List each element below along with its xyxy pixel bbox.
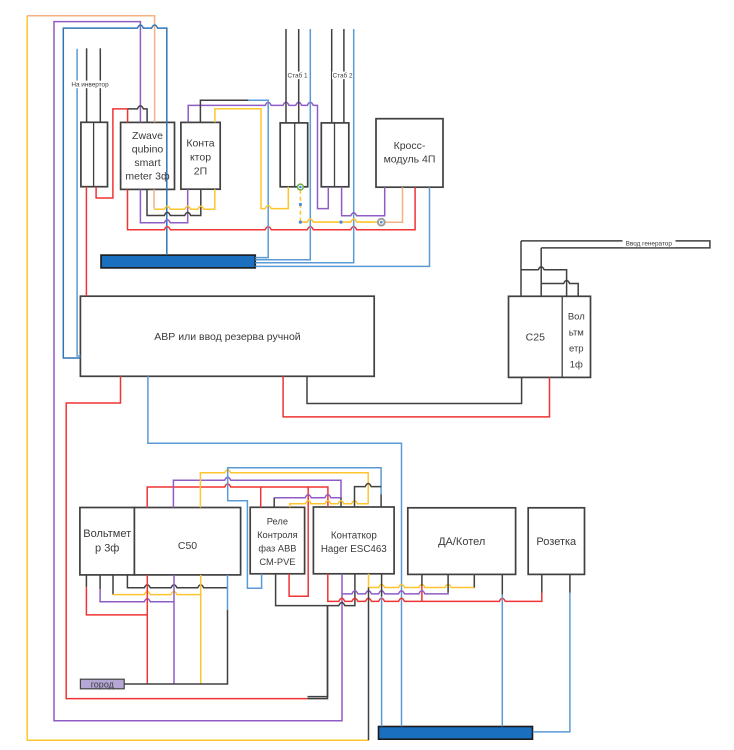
busbar lower (blue distribution bar) (379, 727, 533, 740)
wire blue: Stab1 aux down to busbar (255, 29, 310, 260)
wire red: voltmeter3f to C50 red riser (86, 587, 147, 615)
wire red: AVR bottom left long run to bottom (66, 376, 307, 698)
voltmeter Voltmetr 3f (80, 508, 134, 575)
svg-text:meter 3ф: meter 3ф (125, 171, 170, 183)
load DA/Kotel (408, 508, 516, 575)
wire purple: Kontaktor 2P top to Stab2 bottom (188, 102, 328, 208)
breaker C25 with voltmeter 1f (509, 296, 591, 377)
breaker Stab 2 (2-pole) (321, 123, 349, 187)
connector waypoint dots (blue) (299, 203, 302, 206)
svg-text:qubino: qubino (132, 144, 164, 156)
busbar upper (blue distribution bar) (101, 255, 255, 268)
wire purple: Stab2 bottom to Kross module bottom (342, 187, 385, 216)
wire black: generator drop A to C25 top (520, 241, 522, 296)
svg-text:Ввод генератор: Ввод генератор (626, 240, 673, 247)
svg-text:Hager ESC463: Hager ESC463 (321, 544, 387, 555)
breaker C50 (134, 508, 240, 575)
svg-text:Вол: Вол (568, 312, 585, 323)
wire black stub Rozetka 1 (541, 574, 543, 592)
svg-text:Кросс-: Кросс- (394, 140, 426, 152)
svg-text:р 3ф: р 3ф (95, 543, 119, 555)
svg-text:Конта: Конта (186, 138, 214, 150)
wire red: C50 top bus to Hager top (147, 484, 328, 508)
svg-text:ктор: ктор (190, 152, 211, 164)
wire red: AVR bottom to C25 bottom (283, 376, 549, 417)
wire black stub: Hager top purple junction (340, 498, 342, 507)
connector endpoint marker (green circle) at Stab1 bottom (298, 184, 304, 190)
wire black stub DA/Kotel 1 (421, 574, 423, 586)
wire purple: C50 top loop to Rele top and Hager top (173, 477, 341, 507)
wire black stub Stab1 pole 1 (285, 29, 287, 123)
wire red: Hager bottom to Rozetka bottom (328, 574, 542, 602)
svg-text:ьтм: ьтм (569, 328, 584, 339)
wire gold: connector run to Kross module (300, 219, 381, 222)
svg-text:CM-PVE: CM-PVE (259, 557, 295, 567)
svg-text:фаз АВВ: фаз АВВ (258, 544, 296, 554)
svg-text:етр: етр (569, 344, 584, 355)
wire red: Na invertor bottom loop up into Zwave top (96, 109, 128, 198)
wire black: generator input line (521, 241, 710, 248)
wire blue: Hager to lower busbar (381, 597, 383, 727)
wire black: voltmeter3f stub4 to blue riser (127, 575, 227, 588)
wire black: Kontaktor 2P top link (200, 100, 248, 122)
wire black: Zwave top link (128, 106, 147, 123)
svg-text:1ф: 1ф (570, 360, 583, 371)
wire red: branch to Rele top (260, 487, 262, 507)
contactor Hager ESC463 (313, 507, 394, 574)
wire black stub DA/Kotel 2 (447, 574, 449, 592)
wire black: bottom link to black riser (308, 606, 328, 699)
wire blue riser: C50 bottom (227, 575, 229, 610)
breaker Stab 1 (2-pole) (280, 123, 308, 187)
wire blue: continuation to busbar right end (248, 100, 268, 257)
wire blue: Stab2 aux down to busbar (255, 29, 354, 263)
wire blue: Rozetka to lower busbar right end (533, 593, 570, 732)
wire black stub DA/Kotel 4 (501, 574, 503, 594)
wire black stub to Na invertor pole 1 (86, 48, 88, 122)
cross-module Kross-modul 4P (376, 119, 443, 188)
wire purple: Hager bottom to DA/Kotel (342, 591, 448, 594)
wire red: Zwave bottom to Kross module bottom (128, 187, 416, 230)
wire purple riser: C50 bottom to gorod line (173, 575, 175, 684)
wire black: tie drop to bottom red run (308, 606, 328, 697)
wire light blue: short feed into AVR left edge (77, 49, 80, 356)
wire gold: to Kontaktor 2P bottom (154, 189, 215, 209)
meter Zwave qubino smart meter 3f (121, 122, 175, 189)
wire purple feed: Zwave top, left frame, bottom run, up to Hager bottom (54, 22, 342, 721)
wire black: generator drop B to C25 top (540, 248, 542, 296)
wire black stub Rozetka 2 (569, 574, 571, 592)
wire black: branch to voltmeter 1f top (521, 267, 567, 297)
wire black: riser continuation to gorod line (124, 610, 227, 684)
breaker Na invertor (2-pole) (81, 122, 108, 186)
wire black stub voltmeter3f 2 (99, 575, 101, 589)
label box gorod (80, 679, 124, 689)
wire gold: Hager bottom to DA/Kotel (369, 574, 475, 588)
wire blue: Kross module to busbar right end (255, 187, 429, 266)
wire black stub voltmeter3f 1 (85, 575, 87, 587)
wire black: Hager top tie (355, 484, 382, 508)
wire black stub voltmeter3f 3 (112, 575, 114, 595)
wire gold: voltmeter3f to C50 gold riser (113, 592, 201, 595)
wire gold: C50 top loop to Rele top (200, 470, 368, 508)
wire red riser: C50 bottom to gorod line (146, 575, 148, 684)
wire purple: Zwave bottom to Kontaktor 2P bottom (140, 189, 187, 223)
svg-text:ДА/Котел: ДА/Котел (438, 536, 485, 548)
svg-text:модуль 4П: модуль 4П (384, 154, 436, 166)
wire black stub: Hager top from blue (380, 494, 382, 507)
wire peach feed: top horizontal into Zwave meter top (27, 16, 154, 123)
wire black stub Stab2 pole 1 (331, 29, 333, 123)
wire black stub Stab1 pole 2 (298, 29, 300, 123)
wire black stub DA/Kotel 3 (473, 574, 475, 587)
wire red: Na invertor to AVR top (85, 187, 87, 297)
wire gold dashed: selected connector from Stab1 bottom (299, 190, 301, 222)
wire red: branch down to Rele bottom (289, 487, 308, 596)
wire dark blue frame: into AVR left, top horizontal, down through Zwave to busbar (63, 25, 167, 358)
wire purple: voltmeter3f to C50 purple riser (100, 589, 174, 602)
node label Stab 1 (287, 72, 308, 80)
wire red: DA/Kotel branch (421, 586, 423, 601)
svg-text:C50: C50 (178, 540, 197, 552)
wire gold: Kontaktor 2P top to Stab1 bottom (215, 109, 288, 209)
wire black: Zwave bottom to Kontaktor 2P bottom (147, 189, 201, 215)
svg-text:2П: 2П (194, 166, 207, 178)
svg-text:Стаб 2: Стаб 2 (332, 72, 352, 80)
wire gold riser: C50 bottom to gorod line (200, 575, 202, 684)
wire black stub to Na invertor pole 2 (99, 48, 101, 122)
wire peach: Zwave bottom stub (153, 189, 155, 208)
wire black stub: Rele top (273, 498, 275, 508)
wire black: junction riser down to gold bottom run (368, 588, 370, 741)
svg-text:Zwave: Zwave (132, 130, 163, 142)
node label Stab 2 (332, 72, 353, 80)
connector endpoint marker (gray circle) at Kross leg (378, 219, 385, 226)
svg-text:АВР или ввод резерва ручной: АВР или ввод резерва ручной (154, 331, 301, 343)
contactor Kontaktor 2P (181, 122, 220, 189)
svg-text:smart: smart (134, 157, 160, 169)
relay Rele kontrolya faz ABB CM-PVE (250, 507, 304, 574)
node label Na invertor (69, 81, 112, 89)
wire black stub Stab2 pole 2 (343, 29, 345, 123)
socket Rozetka (528, 508, 584, 575)
wire black: branch B to voltmeter 1f top (541, 280, 578, 296)
svg-text:Стаб 1: Стаб 1 (287, 72, 307, 80)
wire black: AVR bottom to C25 bottom (307, 376, 522, 403)
switch AVR manual reserve input (80, 296, 374, 376)
node label Vvod generator (623, 240, 676, 248)
wire blue: DA/Kotel to lower busbar (501, 595, 503, 727)
wire peach: Kross module bottom leg (381, 187, 402, 222)
svg-text:Контаткор: Контаткор (331, 531, 378, 542)
svg-text:Контроля: Контроля (257, 530, 298, 540)
svg-text:город: город (91, 680, 115, 690)
svg-text:Реле: Реле (267, 517, 288, 527)
wire gold feed: left frame vertical and bottom run to junction (27, 16, 369, 741)
svg-text:На инвертор: На инвертор (71, 82, 109, 89)
svg-text:Розетка: Розетка (536, 536, 577, 548)
svg-text:C25: C25 (526, 332, 545, 344)
wire blue: Rele bottom loop to Hager top (228, 468, 381, 589)
svg-text:Вольтмет: Вольтмет (83, 528, 131, 540)
wire blue: AVR bottom down right to lower busbar (148, 376, 402, 726)
wire black stub Hager blue leg (381, 574, 383, 597)
wire black: Rele bottom to Hager bottom tie (276, 574, 355, 606)
